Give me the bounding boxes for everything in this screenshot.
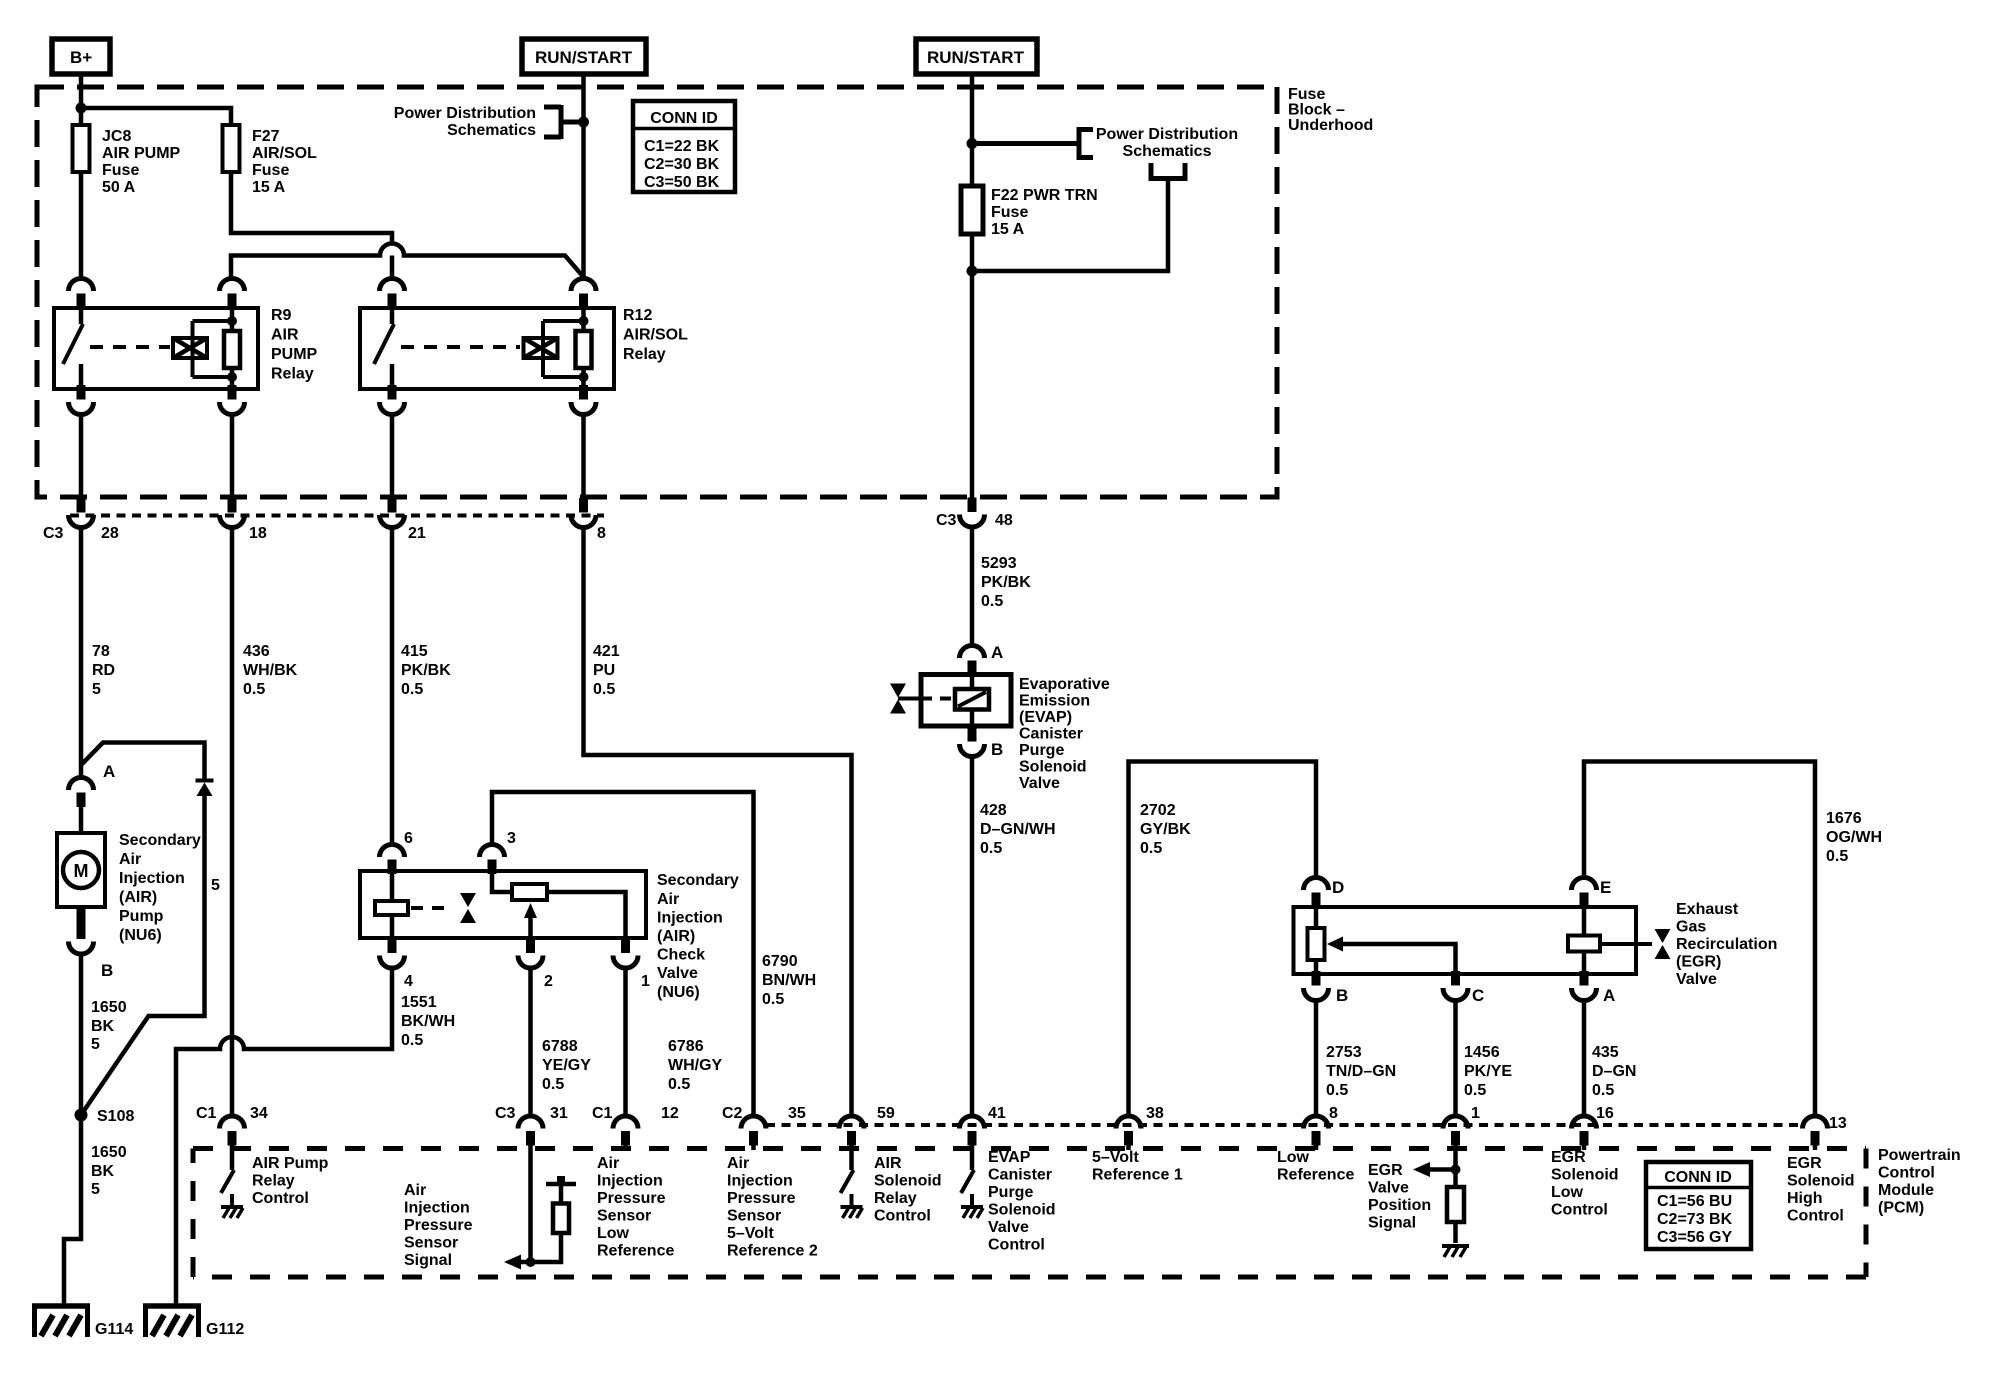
- svg-text:Solenoid: Solenoid: [1019, 759, 1087, 776]
- svg-text:YE/GY: YE/GY: [542, 1057, 591, 1074]
- svg-text:CONN ID: CONN ID: [1664, 1169, 1732, 1186]
- svg-text:AIR PUMP: AIR PUMP: [102, 145, 181, 162]
- check valve wiper arrow: [528, 917, 533, 938]
- EGR position sensor: [1314, 907, 1319, 974]
- node junction RUN/START left: [578, 117, 589, 128]
- svg-text:0.5: 0.5: [243, 681, 265, 698]
- svg-text:High: High: [1787, 1190, 1823, 1207]
- svg-text:Recirculation: Recirculation: [1676, 936, 1777, 953]
- svg-text:Sensor: Sensor: [727, 1208, 781, 1225]
- PCM pin C3 31: [495, 1105, 568, 1150]
- svg-text:28: 28: [101, 525, 119, 542]
- svg-text:Fuse: Fuse: [1288, 86, 1325, 103]
- check valve pin 6 connector: [380, 845, 405, 875]
- svg-text:5293: 5293: [981, 555, 1017, 572]
- R9 actuator dashes: [90, 345, 170, 349]
- wire 2702 GY/BK 0.5 (PCM 38 to EGR D): [1129, 762, 1317, 1117]
- svg-text:0.5: 0.5: [1326, 1082, 1348, 1099]
- PCM pin 13: [1787, 1115, 1855, 1225]
- fuse JC8 AIR PUMP 50 A: [73, 125, 181, 196]
- check valve butterfly: [460, 893, 476, 923]
- svg-text:BK/WH: BK/WH: [401, 1013, 455, 1030]
- R12 coil resistor: [581, 308, 586, 389]
- svg-text:428: 428: [980, 802, 1007, 819]
- EVAP box: [921, 675, 1011, 727]
- svg-text:(EGR): (EGR): [1676, 954, 1721, 971]
- svg-text:Solenoid: Solenoid: [988, 1202, 1056, 1219]
- svg-text:Air: Air: [597, 1155, 619, 1172]
- wire check valve pin 3 to PCM 35 (6790 BN/WH 0.5): [492, 792, 816, 1116]
- node junction B+ feed: [76, 103, 87, 114]
- R9 coil loop: [193, 321, 233, 377]
- svg-text:1456: 1456: [1464, 1044, 1500, 1061]
- EVAP solenoid: [970, 675, 975, 727]
- svg-text:Signal: Signal: [404, 1252, 452, 1269]
- wire 1650 BK 5 (S108 to G114): [64, 1115, 127, 1305]
- svg-text:6790: 6790: [762, 953, 798, 970]
- svg-text:1650: 1650: [91, 999, 127, 1016]
- R12 coil loop: [543, 321, 584, 377]
- check valve pin 2 connector: [518, 939, 543, 969]
- svg-text:1650: 1650: [91, 1144, 127, 1161]
- wire junction to F27 fuse: [81, 108, 231, 125]
- svg-text:B: B: [1336, 986, 1348, 1005]
- svg-text:5: 5: [91, 1036, 100, 1053]
- svg-text:GY/BK: GY/BK: [1140, 821, 1191, 838]
- svg-text:78: 78: [92, 643, 110, 660]
- svg-text:JC8: JC8: [102, 128, 131, 145]
- svg-text:34: 34: [250, 1105, 268, 1122]
- check valve sensor element: [492, 871, 512, 892]
- svg-text:Fuse: Fuse: [252, 162, 289, 179]
- svg-text:WH/GY: WH/GY: [668, 1057, 723, 1074]
- check valve solenoid coil: [390, 871, 395, 938]
- svg-text:RUN/START: RUN/START: [927, 48, 1025, 67]
- svg-text:21: 21: [408, 525, 426, 542]
- svg-text:31: 31: [550, 1105, 568, 1122]
- svg-text:59: 59: [877, 1105, 895, 1122]
- wire 5 (diode branch down to S108): [81, 796, 220, 1115]
- wire F22 to C3 pin 48: [970, 234, 975, 498]
- R9 switch: [79, 308, 84, 324]
- svg-text:BN/WH: BN/WH: [762, 972, 816, 989]
- svg-text:12: 12: [661, 1105, 679, 1122]
- svg-text:Control: Control: [874, 1208, 931, 1225]
- wire junction to schematics bracket (right): [972, 163, 1188, 271]
- power distribution schematics callout (left): [394, 105, 584, 139]
- EGR butterfly: [1655, 929, 1671, 959]
- wire 5293 PK/BK 0.5 (pin 48 to EVAP A): [972, 527, 1031, 646]
- svg-text:Secondary: Secondary: [657, 872, 739, 889]
- svg-text:Emission: Emission: [1019, 693, 1090, 710]
- svg-text:421: 421: [593, 643, 620, 660]
- svg-text:C3: C3: [495, 1105, 516, 1122]
- svg-text:Exhaust: Exhaust: [1676, 901, 1739, 918]
- svg-text:Valve: Valve: [1368, 1180, 1409, 1197]
- svg-text:Power Distribution: Power Distribution: [394, 105, 536, 122]
- svg-text:BK: BK: [91, 1018, 115, 1035]
- svg-text:8: 8: [597, 525, 606, 542]
- svg-text:1676: 1676: [1826, 810, 1862, 827]
- svg-text:G112: G112: [206, 1321, 244, 1338]
- svg-text:Powertrain: Powertrain: [1878, 1147, 1961, 1164]
- wire F27 to crossover: [231, 172, 392, 244]
- svg-text:D–GN: D–GN: [1592, 1063, 1636, 1080]
- svg-text:C: C: [1472, 986, 1484, 1005]
- wire B+ to JC8 fuse: [79, 74, 84, 125]
- svg-text:PU: PU: [593, 662, 615, 679]
- node RUN/START (right): [916, 39, 1037, 74]
- svg-text:Pump: Pump: [119, 908, 164, 925]
- fuse block - underhood dashed box: [37, 86, 1373, 497]
- svg-text:Valve: Valve: [988, 1219, 1029, 1236]
- svg-text:38: 38: [1146, 1105, 1164, 1122]
- check valve pin 4 connector: [380, 939, 405, 969]
- svg-text:C3: C3: [43, 525, 64, 542]
- wire 435 D-GN 0.5 (EGR A to PCM 16): [1584, 1001, 1636, 1117]
- EGR solenoid: [1582, 907, 1587, 974]
- wire 6786 WH/GY 0.5 (pin 1 to PCM 12): [626, 968, 723, 1117]
- svg-text:5–Volt: 5–Volt: [727, 1225, 775, 1242]
- svg-text:Gas: Gas: [1676, 919, 1706, 936]
- node RUN/START (left): [522, 39, 646, 74]
- svg-text:BK: BK: [91, 1163, 115, 1180]
- svg-text:2753: 2753: [1326, 1044, 1362, 1061]
- diode (one-way) symbol: [196, 781, 214, 797]
- svg-text:0.5: 0.5: [401, 1032, 423, 1049]
- svg-text:(AIR): (AIR): [119, 889, 157, 906]
- connector C3 pin 21: [380, 498, 426, 542]
- wire RUN/START left down to R12 coil: [581, 74, 586, 278]
- svg-text:48: 48: [995, 512, 1013, 529]
- R12 solenoid: [524, 338, 558, 358]
- svg-text:Control: Control: [988, 1237, 1045, 1254]
- svg-text:Block –: Block –: [1288, 102, 1345, 119]
- svg-text:Control: Control: [252, 1190, 309, 1207]
- svg-text:WH/BK: WH/BK: [243, 662, 298, 679]
- EGR pin B connector: [1304, 971, 1329, 1001]
- svg-text:Schematics: Schematics: [1123, 143, 1212, 160]
- label 1551 BK/WH 0.5: [401, 994, 455, 1049]
- R12 actuator dashes: [401, 345, 520, 349]
- svg-text:8: 8: [1329, 1105, 1338, 1122]
- R12 switch: [390, 308, 395, 324]
- svg-text:AIR: AIR: [271, 327, 299, 344]
- svg-text:Reference 1: Reference 1: [1092, 1167, 1183, 1184]
- svg-text:C1=22 BK: C1=22 BK: [644, 138, 720, 155]
- svg-text:S108: S108: [97, 1108, 134, 1125]
- svg-text:C2=73 BK: C2=73 BK: [1657, 1211, 1733, 1228]
- svg-text:0.5: 0.5: [668, 1076, 690, 1093]
- conn id table (PCM): [1646, 1162, 1751, 1249]
- svg-text:EGR: EGR: [1368, 1162, 1403, 1179]
- svg-text:A: A: [103, 762, 115, 781]
- svg-text:Relay: Relay: [252, 1173, 295, 1190]
- wire 2753 TN/D-GN 0.5 (EGR B to PCM 8): [1316, 1001, 1396, 1117]
- svg-text:Valve: Valve: [657, 965, 698, 982]
- svg-text:Injection: Injection: [657, 910, 723, 927]
- EVAP butterfly: [898, 697, 921, 701]
- connector B (AIR pump): [69, 907, 114, 980]
- svg-text:OG/WH: OG/WH: [1826, 829, 1882, 846]
- svg-text:B: B: [991, 740, 1003, 759]
- svg-text:Reference 2: Reference 2: [727, 1243, 818, 1260]
- wire R9 coil to C3 pin 18: [230, 415, 235, 499]
- R9 switch top connector: [69, 279, 94, 309]
- svg-text:Evaporative: Evaporative: [1019, 676, 1110, 693]
- svg-text:Injection: Injection: [404, 1200, 470, 1217]
- svg-text:PK/BK: PK/BK: [981, 574, 1031, 591]
- svg-text:C2: C2: [722, 1105, 743, 1122]
- svg-text:PK/YE: PK/YE: [1464, 1063, 1512, 1080]
- R12 bottom connectors: [380, 385, 405, 415]
- PCM pin 8: [1277, 1105, 1354, 1184]
- ground G112: [143, 1304, 244, 1338]
- PCM EGR position signal input: [1368, 1150, 1469, 1257]
- svg-text:EVAP: EVAP: [988, 1149, 1031, 1166]
- svg-text:1: 1: [641, 973, 650, 990]
- wire 6788 YE/GY 0.5 (pin 2 to PCM 31): [531, 968, 592, 1117]
- svg-text:C3=56 GY: C3=56 GY: [1657, 1229, 1732, 1246]
- AIR pump motor M (NU6): [57, 805, 201, 944]
- svg-text:6786: 6786: [668, 1038, 704, 1055]
- PCM driver AIR solenoid relay control: [841, 1150, 942, 1225]
- splice S108: [75, 1108, 135, 1125]
- relay R12 AIR/SOL: [360, 279, 688, 415]
- svg-text:R12: R12: [623, 307, 652, 324]
- svg-text:F27: F27: [252, 128, 280, 145]
- svg-text:Solenoid: Solenoid: [874, 1173, 942, 1190]
- svg-text:1551: 1551: [401, 994, 437, 1011]
- svg-text:Canister: Canister: [988, 1167, 1052, 1184]
- ground G114: [32, 1304, 133, 1338]
- svg-text:5: 5: [92, 681, 101, 698]
- svg-text:AIR/SOL: AIR/SOL: [252, 145, 317, 162]
- check valve box: [360, 871, 646, 938]
- svg-text:Fuse: Fuse: [991, 204, 1028, 221]
- node junction RUN/START right: [967, 138, 978, 149]
- svg-text:EGR: EGR: [1787, 1155, 1822, 1172]
- svg-text:Low: Low: [597, 1225, 630, 1242]
- connector C3 dashed line: [70, 514, 604, 518]
- connector C3 pin 18: [220, 498, 267, 542]
- svg-text:Pressure: Pressure: [597, 1190, 666, 1207]
- svg-text:(PCM): (PCM): [1878, 1200, 1924, 1217]
- PCM pin 41: [960, 1105, 1006, 1150]
- svg-text:Underhood: Underhood: [1288, 117, 1373, 134]
- svg-text:D: D: [1332, 878, 1344, 897]
- svg-text:0.5: 0.5: [542, 1076, 564, 1093]
- wire 1456 PK/YE 0.5 (EGR C to PCM 1): [1456, 1001, 1513, 1117]
- check valve actuator dashes: [411, 906, 452, 910]
- PCM connector dashed line (right group): [766, 1123, 1800, 1127]
- wire R12 switch to C3 pin 21: [390, 415, 395, 499]
- svg-text:Sensor: Sensor: [404, 1235, 458, 1252]
- EGR pin E connector: [1572, 878, 1597, 908]
- svg-text:Secondary: Secondary: [119, 832, 201, 849]
- svg-text:Valve: Valve: [1676, 971, 1717, 988]
- svg-text:Injection: Injection: [597, 1173, 663, 1190]
- svg-text:0.5: 0.5: [1592, 1082, 1614, 1099]
- PCM driver EVAP purge solenoid control: [961, 1149, 1056, 1254]
- EGR pin D connector: [1304, 878, 1329, 908]
- svg-text:Relay: Relay: [874, 1190, 917, 1207]
- svg-text:F22 PWR TRN: F22 PWR TRN: [991, 187, 1098, 204]
- svg-text:5–Volt: 5–Volt: [1092, 1149, 1140, 1166]
- svg-text:Sensor: Sensor: [597, 1208, 651, 1225]
- svg-text:6788: 6788: [542, 1038, 578, 1055]
- fuse F22 PWR TRN 15 A: [961, 186, 1098, 238]
- fuse F27 AIR/SOL 15 A: [223, 125, 318, 196]
- PCM pin 38: [1092, 1105, 1183, 1184]
- PCM pin 1: [1443, 1105, 1480, 1150]
- node junction below F22: [967, 266, 978, 277]
- svg-text:Reference: Reference: [597, 1243, 674, 1260]
- svg-text:G114: G114: [95, 1321, 133, 1338]
- wire 415 PK/BK 0.5 (pin 21 to check valve 6): [392, 528, 451, 846]
- wire check valve pin 4 to G112 with hop over 436 wire: [176, 968, 392, 1306]
- connector A (AIR pump): [69, 762, 116, 807]
- R12 coil top connector: [571, 279, 596, 309]
- svg-text:D–GN/WH: D–GN/WH: [980, 821, 1056, 838]
- svg-text:16: 16: [1596, 1105, 1614, 1122]
- wire 1650 BK 5 (pump B to S108): [81, 954, 127, 1115]
- svg-text:Schematics: Schematics: [447, 122, 536, 139]
- svg-text:E: E: [1600, 878, 1611, 897]
- svg-text:C1: C1: [196, 1105, 217, 1122]
- svg-text:Relay: Relay: [271, 366, 314, 383]
- PCM pin 16: [1551, 1105, 1619, 1219]
- svg-text:Air: Air: [119, 851, 141, 868]
- check valve pin 3 connector: [480, 845, 505, 875]
- wire 421 PU 0.5 (pin 8 to PCM 59): [584, 528, 852, 1117]
- svg-text:Check: Check: [657, 947, 705, 964]
- svg-text:Reference: Reference: [1277, 1167, 1354, 1184]
- svg-text:Signal: Signal: [1368, 1215, 1416, 1232]
- svg-text:A: A: [1603, 986, 1615, 1005]
- power distribution schematics callout (right top): [972, 126, 1238, 160]
- svg-text:B: B: [101, 961, 113, 980]
- svg-text:Purge: Purge: [988, 1184, 1033, 1201]
- svg-text:Relay: Relay: [623, 346, 666, 363]
- svg-text:Power Distribution: Power Distribution: [1096, 126, 1238, 143]
- svg-text:436: 436: [243, 643, 270, 660]
- svg-text:Solenoid: Solenoid: [1787, 1173, 1855, 1190]
- svg-text:435: 435: [1592, 1044, 1619, 1061]
- svg-text:0.5: 0.5: [1464, 1082, 1486, 1099]
- svg-text:0.5: 0.5: [762, 991, 784, 1008]
- EVAP pin A connector: [960, 646, 985, 676]
- wire branch to check diode: [81, 743, 205, 780]
- EVAP canister purge solenoid valve: [890, 643, 1110, 792]
- svg-text:C2=30 BK: C2=30 BK: [644, 156, 720, 173]
- EGR wiper arrow: [1341, 944, 1456, 974]
- wire RUN/START right down to F22: [970, 74, 975, 186]
- svg-text:A: A: [991, 643, 1003, 662]
- svg-text:Injection: Injection: [119, 870, 185, 887]
- svg-text:1: 1: [1471, 1105, 1480, 1122]
- svg-text:R9: R9: [271, 307, 292, 324]
- svg-text:0.5: 0.5: [980, 840, 1002, 857]
- svg-text:5: 5: [91, 1181, 100, 1198]
- svg-text:Solenoid: Solenoid: [1551, 1167, 1619, 1184]
- R9 bottom connectors: [69, 385, 94, 415]
- PCM driver AIR pump relay control: [221, 1150, 329, 1218]
- svg-text:Module: Module: [1878, 1182, 1934, 1199]
- svg-text:0.5: 0.5: [1826, 848, 1848, 865]
- svg-text:0.5: 0.5: [981, 593, 1003, 610]
- svg-text:6: 6: [404, 830, 413, 847]
- EGR pin C connector: [1443, 971, 1468, 1001]
- PCM air injection pressure sensor signal input: [404, 1150, 576, 1270]
- svg-text:AIR Pump: AIR Pump: [252, 1155, 329, 1172]
- connector C3 pin 8: [571, 498, 606, 542]
- svg-text:2: 2: [544, 973, 553, 990]
- svg-text:0.5: 0.5: [1140, 840, 1162, 857]
- svg-text:Low: Low: [1551, 1184, 1584, 1201]
- svg-text:0.5: 0.5: [401, 681, 423, 698]
- svg-text:13: 13: [1829, 1115, 1847, 1132]
- svg-text:Valve: Valve: [1019, 775, 1060, 792]
- node B+: [52, 39, 110, 74]
- connector C3 pin 48: [936, 498, 1013, 530]
- EVAP actuator dashes: [921, 697, 955, 701]
- wire 436 WH/BK 0.5 (pin 18 to PCM 34): [232, 528, 298, 1117]
- svg-text:415: 415: [401, 643, 428, 660]
- svg-text:Air: Air: [657, 891, 679, 908]
- svg-text:C1: C1: [592, 1105, 613, 1122]
- svg-text:2702: 2702: [1140, 802, 1176, 819]
- wire R12 coil to C3 pin 8: [581, 415, 586, 499]
- svg-text:Position: Position: [1368, 1197, 1431, 1214]
- svg-text:Injection: Injection: [727, 1173, 793, 1190]
- svg-text:RUN/START: RUN/START: [535, 48, 633, 67]
- PCM pin 59: [839, 1105, 895, 1150]
- svg-text:(EVAP): (EVAP): [1019, 709, 1072, 726]
- svg-text:Purge: Purge: [1019, 742, 1064, 759]
- EGR box: [1294, 907, 1637, 974]
- PCM dashed box: [193, 1147, 1961, 1277]
- svg-text:41: 41: [988, 1105, 1006, 1122]
- relay R9 AIR PUMP: [54, 279, 318, 415]
- wire JC8 to relay R9 switch: [79, 172, 84, 278]
- svg-text:50 A: 50 A: [102, 179, 136, 196]
- svg-text:PK/BK: PK/BK: [401, 662, 451, 679]
- svg-text:3: 3: [507, 830, 516, 847]
- svg-text:AIR/SOL: AIR/SOL: [623, 327, 688, 344]
- PCM pin C2 35: [722, 1105, 818, 1260]
- connector C3 pin 28: [43, 498, 119, 542]
- svg-text:C1=56 BU: C1=56 BU: [1657, 1193, 1732, 1210]
- svg-text:Control: Control: [1551, 1202, 1608, 1219]
- svg-text:15 A: 15 A: [991, 221, 1025, 238]
- svg-text:(AIR): (AIR): [657, 928, 695, 945]
- svg-text:5: 5: [211, 877, 220, 894]
- svg-text:Low: Low: [1277, 1149, 1310, 1166]
- R12 box: [360, 308, 614, 389]
- R12 switch top connector: [380, 279, 405, 309]
- wire R9 switch to C3 pin 28: [79, 415, 84, 499]
- wire crossover to R12 switch: [390, 256, 395, 280]
- svg-text:RD: RD: [92, 662, 115, 679]
- EGR pin A connector: [1572, 971, 1597, 1001]
- svg-text:Pressure: Pressure: [404, 1217, 473, 1234]
- svg-text:Pressure: Pressure: [727, 1190, 796, 1207]
- wire 428 D-GN/WH 0.5 (EVAP B to PCM 41): [972, 757, 1056, 1117]
- svg-text:4: 4: [404, 973, 413, 990]
- R9 solenoid: [173, 338, 207, 358]
- wire bus R9 coil to R12 coil with hop over R12 switch wire: [231, 244, 584, 278]
